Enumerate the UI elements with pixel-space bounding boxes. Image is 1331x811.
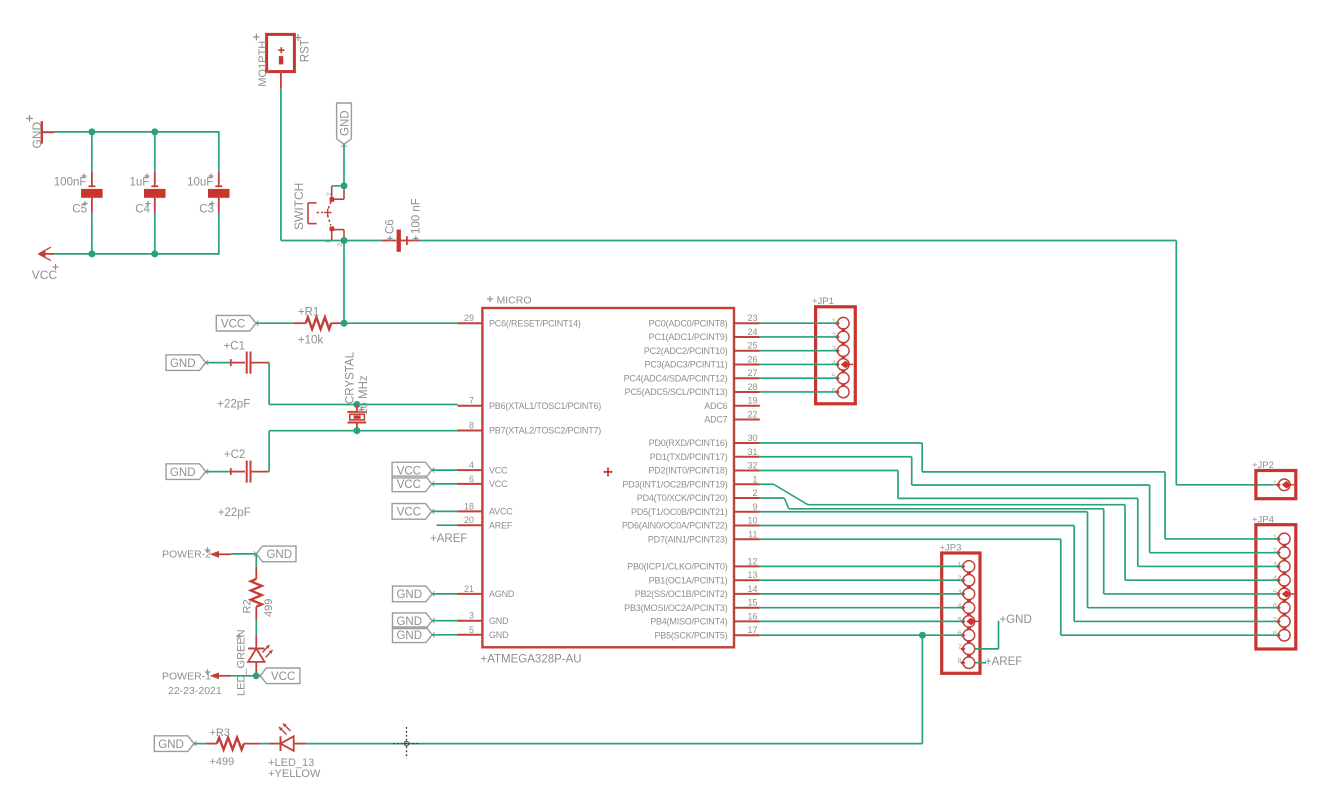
wire GND to C1 xyxy=(206,362,230,364)
node junction VCC/C4 xyxy=(151,250,158,257)
pin 9 PD5(T1/OC0B/PCINT21) (right) xyxy=(734,511,760,513)
pin 10 PD6(AIN0/OC0A/PCINT22) (right) xyxy=(734,525,760,527)
wire PB2 to JP3-3 xyxy=(760,593,963,595)
svg-text:MQ1PTH: MQ1PTH xyxy=(257,41,269,87)
svg-text:PC3(ADC3/PCINT11): PC3(ADC3/PCINT11) xyxy=(645,360,728,370)
supply tag GND (above switch, rotated) xyxy=(337,103,352,144)
supply tag VCC (power led) xyxy=(260,668,300,684)
svg-text:1uF: 1uF xyxy=(129,177,149,189)
svg-text:C6: C6 xyxy=(384,219,396,234)
wire JP3-7 to GND label xyxy=(975,648,999,650)
svg-text:PB0(ICP1/CLKO/PCINT0): PB0(ICP1/CLKO/PCINT0) xyxy=(627,562,728,572)
wire reset net to C6 xyxy=(382,240,397,242)
node junction GND/C4 xyxy=(151,128,158,135)
svg-text:25: 25 xyxy=(747,341,757,351)
wire RST vertical xyxy=(280,89,282,241)
wire GND bus top of cap bank xyxy=(54,131,218,133)
wire pin23 to JP1-1 xyxy=(760,322,838,324)
pin 7 PB6(XTAL1/TOSC1/PCINT6) (left) xyxy=(458,405,483,407)
svg-text:29: 29 xyxy=(464,313,474,323)
svg-text:23: 23 xyxy=(747,313,757,323)
connector JP4 xyxy=(1256,525,1296,649)
pin 22 ADC7 (right) xyxy=(734,418,760,420)
supply symbol GND (rotated) top-left xyxy=(41,121,43,144)
svg-text:6: 6 xyxy=(832,387,836,394)
svg-text:3: 3 xyxy=(469,611,474,621)
svg-text:19: 19 xyxy=(747,396,757,406)
svg-text:2: 2 xyxy=(326,192,333,196)
svg-text:8: 8 xyxy=(957,658,961,665)
svg-text:4: 4 xyxy=(1273,576,1277,583)
supply symbol VCC (rotated arrow) bottom-left xyxy=(41,253,54,255)
svg-text:8: 8 xyxy=(469,421,474,431)
svg-text:+AREF: +AREF xyxy=(430,533,467,545)
wire reset net long horizontal to JP2 xyxy=(420,240,1177,242)
svg-text:7: 7 xyxy=(469,396,474,406)
svg-text:2: 2 xyxy=(957,576,961,583)
wire GND tag to switch xyxy=(343,144,345,186)
supply tag GND (C2) xyxy=(166,464,206,480)
node junction GND/C5 xyxy=(88,128,95,135)
svg-text:5: 5 xyxy=(1273,589,1277,596)
wire C1 to XTAL1 xyxy=(251,362,270,364)
capacitor C5 100nF xyxy=(88,185,95,187)
svg-text:LED_GREEN: LED_GREEN xyxy=(235,629,247,696)
svg-text:GND: GND xyxy=(158,739,184,751)
svg-text:AREF: AREF xyxy=(489,520,513,530)
wire pin28 to JP1-6 xyxy=(760,391,838,393)
pin 2 PD4(T0/XCK/PCINT20) (right) xyxy=(734,497,760,499)
wire R1 to pin29 xyxy=(344,322,458,324)
supply tag GND (LED13) xyxy=(154,736,194,752)
svg-text:+AREF: +AREF xyxy=(985,656,1022,668)
node junction switch/reset-net xyxy=(341,237,348,244)
svg-text:1: 1 xyxy=(752,474,757,484)
wire pin24 to JP1-2 xyxy=(760,336,838,338)
svg-text:GND: GND xyxy=(396,630,422,642)
svg-text:+R3: +R3 xyxy=(210,727,231,739)
supply tag GND (pin3) xyxy=(393,613,433,629)
pin 19 ADC6 (right) xyxy=(734,405,760,407)
svg-text:6: 6 xyxy=(1273,603,1277,610)
svg-text:15: 15 xyxy=(747,598,757,608)
svg-text:14: 14 xyxy=(747,584,757,594)
wire PD7 to JP4-8 xyxy=(760,538,1061,540)
resistor R2 499 xyxy=(251,579,262,607)
svg-text:21: 21 xyxy=(464,584,474,594)
wire C4 lower lead xyxy=(154,198,156,213)
pin 11 PD7(AIN1/PCINT23) (right) xyxy=(734,538,760,540)
svg-text:7: 7 xyxy=(1273,617,1277,624)
svg-text:POWER-2: POWER-2 xyxy=(162,549,211,561)
wire C5 upper lead xyxy=(91,132,93,172)
capacitor C6 100nF xyxy=(397,230,401,252)
connector JP3 xyxy=(942,553,980,673)
capacitor C3 10uF xyxy=(215,185,222,187)
resistor R1 10k xyxy=(306,317,331,329)
svg-text:17: 17 xyxy=(747,625,757,635)
svg-text:7: 7 xyxy=(957,644,961,651)
svg-text:AVCC: AVCC xyxy=(489,507,513,517)
svg-text:PD6(AIN0/OC0A/PCINT22): PD6(AIN0/OC0A/PCINT22) xyxy=(622,521,728,531)
wire switch to R1 node xyxy=(343,241,345,324)
pin 29 PC6(/RESET/PCINT14) (left) xyxy=(458,322,483,324)
wire C5 lower lead xyxy=(91,198,93,213)
connector JP1 xyxy=(816,307,856,404)
svg-text:RST: RST xyxy=(299,39,311,62)
svg-text:GND: GND xyxy=(30,122,44,149)
pin 18 AVCC (left) xyxy=(458,510,483,512)
svg-text:PD0(RXD/PCINT16): PD0(RXD/PCINT16) xyxy=(649,438,728,448)
svg-text:PB1(OC1A/PCINT1): PB1(OC1A/PCINT1) xyxy=(649,575,728,585)
pin 20 AREF (left) xyxy=(458,524,483,526)
svg-text:VCC: VCC xyxy=(397,479,421,491)
wire PD5 to JP4-6 xyxy=(760,511,1088,513)
pin 24 PC1(ADC1/PCINT9) (right) xyxy=(734,336,760,338)
svg-text:10: 10 xyxy=(747,516,757,526)
svg-text:GND: GND xyxy=(396,616,422,628)
wire C3 upper lead xyxy=(218,131,220,172)
svg-text:+10k: +10k xyxy=(298,335,324,347)
svg-text:9: 9 xyxy=(752,502,757,512)
svg-text:+R1: +R1 xyxy=(298,307,319,319)
svg-text:+C2: +C2 xyxy=(224,449,245,461)
wire GND to R2 xyxy=(255,554,257,567)
svg-text:PB6(XTAL1/TOSC1/PCINT6): PB6(XTAL1/TOSC1/PCINT6) xyxy=(489,401,601,411)
svg-text:+GND: +GND xyxy=(1000,614,1032,626)
wire R2 to LED_GREEN xyxy=(255,620,257,636)
svg-text:GND: GND xyxy=(170,358,196,370)
wire pin26 to JP1-4 xyxy=(760,363,838,365)
svg-text:PC1(ADC1/PCINT9): PC1(ADC1/PCINT9) xyxy=(649,332,728,342)
cursor crosshair marker xyxy=(406,727,408,759)
pin 8 PB7(XTAL2/TOSC2/PCINT7) (left) xyxy=(458,430,483,432)
pin 30 PD0(RXD/PCINT16) (right) xyxy=(734,442,760,444)
svg-text:PC2(ADC2/PCINT10): PC2(ADC2/PCINT10) xyxy=(644,346,728,356)
svg-text:4: 4 xyxy=(957,603,961,610)
pin 21 AGND (left) xyxy=(458,593,483,595)
svg-text:18: 18 xyxy=(464,501,474,511)
wire PD0 to JP4-1 xyxy=(760,442,922,444)
svg-text:GND: GND xyxy=(489,630,509,640)
supply tag GND (power led) xyxy=(256,546,296,562)
wire PB3 to JP3-4 xyxy=(760,607,963,609)
wire JP3-8 to AREF label xyxy=(975,662,986,664)
svg-text:GND: GND xyxy=(489,616,509,626)
supply tag VCC (pin6) xyxy=(392,476,432,492)
svg-text:PB4(MISO/PCINT4): PB4(MISO/PCINT4) xyxy=(650,617,728,627)
wire PD3 to JP4-4 xyxy=(760,483,774,485)
svg-text:+YELLOW: +YELLOW xyxy=(268,768,321,780)
supply tag GND (pin5) xyxy=(393,627,433,643)
wire C2 to XTAL2 xyxy=(251,471,270,473)
svg-text:12: 12 xyxy=(747,556,757,566)
svg-text:11: 11 xyxy=(748,529,757,539)
wire LED13 to PB5 net xyxy=(306,743,922,745)
pin 1 PD3(INT1/OC2B/PCINT19) (right) xyxy=(734,483,760,485)
svg-text:+JP3: +JP3 xyxy=(940,543,962,554)
svg-text:VCC: VCC xyxy=(489,479,508,489)
node junction PB5 net xyxy=(919,632,926,639)
pin 14 PB2(SS/OC1B/PCINT2) (right) xyxy=(734,593,760,595)
pin 4 VCC (left) xyxy=(458,469,483,471)
svg-text:PD1(TXD/PCINT17): PD1(TXD/PCINT17) xyxy=(650,452,728,462)
pin 12 PB0(ICP1/CLKO/PCINT0) (right) xyxy=(734,565,760,567)
svg-text:PC0(ADC0/PCINT8): PC0(ADC0/PCINT8) xyxy=(649,318,728,328)
svg-text:SWITCH: SWITCH xyxy=(292,183,306,230)
svg-text:PD4(T0/XCK/PCINT20): PD4(T0/XCK/PCINT20) xyxy=(637,493,728,503)
pin 31 PD1(TXD/PCINT17) (right) xyxy=(734,456,760,458)
node junction R1/reset xyxy=(341,320,348,327)
svg-text:VCC: VCC xyxy=(32,268,58,282)
wire PD2 to JP4-3 xyxy=(760,470,898,472)
svg-text:32: 32 xyxy=(747,461,757,471)
svg-text:+22pF: +22pF xyxy=(217,399,250,411)
svg-text:PD7(AIN1/PCINT23): PD7(AIN1/PCINT23) xyxy=(648,534,728,544)
svg-text:24: 24 xyxy=(747,327,757,337)
svg-text:VCC: VCC xyxy=(489,465,508,475)
wire VCC to R1 xyxy=(256,322,293,324)
svg-text:MICRO: MICRO xyxy=(497,295,532,307)
LED LED_13 YELLOW xyxy=(280,736,282,751)
wire PB4 to JP3-5 xyxy=(760,620,963,622)
svg-text:1: 1 xyxy=(832,319,836,326)
wire pin25 to JP1-3 xyxy=(760,350,838,352)
svg-text:CRYSTAL: CRYSTAL xyxy=(344,351,356,404)
wire PB5 to JP3-6 xyxy=(760,634,963,636)
svg-text:POWER-1: POWER-1 xyxy=(162,671,211,683)
svg-text:5: 5 xyxy=(832,374,836,381)
svg-text:+499: +499 xyxy=(210,756,235,768)
capacitor C1 22pF xyxy=(246,352,248,374)
svg-text:13: 13 xyxy=(747,570,757,580)
svg-text:2: 2 xyxy=(752,488,757,498)
svg-text:VCC: VCC xyxy=(271,671,295,683)
wire PD1 to JP4-2 xyxy=(760,456,912,458)
svg-text:5: 5 xyxy=(957,617,961,624)
pin 6 VCC (left) xyxy=(458,483,483,485)
svg-text:5: 5 xyxy=(469,625,474,635)
svg-text:GND: GND xyxy=(170,467,196,479)
svg-text:30: 30 xyxy=(747,433,757,443)
wire reset net horizontal xyxy=(281,240,382,242)
svg-text:1: 1 xyxy=(957,562,961,569)
pad MQ1PTH RST xyxy=(267,34,295,71)
wire RST pad stem xyxy=(280,71,282,89)
svg-text:+22pF: +22pF xyxy=(218,507,251,519)
svg-text:GND: GND xyxy=(266,549,292,561)
svg-text:100nF: 100nF xyxy=(54,177,87,189)
svg-text:3: 3 xyxy=(957,589,961,596)
pin 23 PC0(ADC0/PCINT8) (right) xyxy=(734,322,760,324)
svg-text:22-23-2021: 22-23-2021 xyxy=(168,685,222,697)
wire AREF pin20 xyxy=(437,524,458,526)
node junction LED/VCC/POWER-1 xyxy=(253,672,260,679)
pin 17 PB5(SCK/PCINT5) (right) xyxy=(734,634,760,636)
svg-text:VCC: VCC xyxy=(221,318,245,330)
resistor R3 499 xyxy=(217,738,244,750)
svg-text:20: 20 xyxy=(464,515,474,525)
capacitor C4 1uF xyxy=(151,185,158,187)
svg-text:PC6(/RESET/PCINT14): PC6(/RESET/PCINT14) xyxy=(489,318,581,328)
svg-text:PD2(INT0/PCINT18): PD2(INT0/PCINT18) xyxy=(648,466,727,476)
LED LED_GREEN xyxy=(248,648,264,650)
wire C3 lower lead xyxy=(218,198,220,213)
wire PD6 to JP4-7 xyxy=(760,525,1074,527)
svg-text:+C1: +C1 xyxy=(224,341,245,353)
svg-text:4: 4 xyxy=(469,460,474,470)
pin 16 PB4(MISO/PCINT4) (right) xyxy=(734,620,760,622)
pin 13 PB1(OC1A/PCINT1) (right) xyxy=(734,579,760,581)
svg-text:PB5(SCK/PCINT5): PB5(SCK/PCINT5) xyxy=(654,630,727,640)
wire POWER-2 to GND tag xyxy=(231,553,256,555)
svg-text:PB7(XTAL2/TOSC2/PCINT7): PB7(XTAL2/TOSC2/PCINT7) xyxy=(489,426,601,436)
wire PD4 to JP4-5 xyxy=(760,497,785,499)
wire VCC bus bottom of cap bank xyxy=(54,253,218,255)
switch S1 (reset pushbutton, rotated) xyxy=(341,182,348,189)
pin 32 PD2(INT0/PCINT18) (right) xyxy=(734,470,760,472)
pin 25 PC2(ADC2/PCINT10) (right) xyxy=(734,350,760,352)
supply tag VCC (R1) xyxy=(216,315,256,331)
svg-text:8: 8 xyxy=(1273,631,1277,638)
supply tag VCC (pin4) xyxy=(392,462,432,478)
svg-text:+JP1: +JP1 xyxy=(812,296,834,307)
svg-text:31: 31 xyxy=(747,447,757,457)
pin 27 PC4(ADC4/SDA/PCINT12) (right) xyxy=(734,377,760,379)
svg-text:499: 499 xyxy=(263,599,275,617)
svg-text:6: 6 xyxy=(957,631,961,638)
wire GND to C2 xyxy=(206,471,230,473)
svg-text:1: 1 xyxy=(1273,534,1277,541)
svg-text:4: 4 xyxy=(832,360,836,367)
crystal Q1 16MHz xyxy=(353,401,360,408)
wire PB1 to JP3-2 xyxy=(760,579,963,581)
pin 3 GND (left) xyxy=(458,620,483,622)
wire PB0 to JP3-1 xyxy=(760,565,963,567)
svg-text:+JP4: +JP4 xyxy=(1252,515,1274,526)
svg-text:PD3(INT1/OC2B/PCINT19): PD3(INT1/OC2B/PCINT19) xyxy=(622,479,727,489)
wire C4 upper lead xyxy=(154,132,156,172)
supply tag GND (C1) xyxy=(166,355,206,371)
svg-text:3: 3 xyxy=(832,346,836,353)
svg-text:6: 6 xyxy=(469,474,474,484)
supply tag GND (AGND pin21) xyxy=(393,586,433,602)
svg-text:3: 3 xyxy=(1273,562,1277,569)
node junction VCC/C5 xyxy=(88,250,95,257)
connector JP2 xyxy=(1256,471,1296,499)
wire pin27 to JP1-5 xyxy=(760,377,838,379)
svg-text:GND: GND xyxy=(396,589,422,601)
svg-text:ADC6: ADC6 xyxy=(704,401,727,411)
pin 5 GND (left) xyxy=(458,634,483,636)
svg-text:26: 26 xyxy=(747,354,757,364)
capacitor C2 22pF xyxy=(246,461,248,483)
wire R3 to LED13 xyxy=(261,743,269,745)
svg-text:GND: GND xyxy=(339,110,351,136)
svg-text:R2: R2 xyxy=(241,599,253,613)
svg-text:+JP2: +JP2 xyxy=(1252,460,1274,471)
svg-text:28: 28 xyxy=(747,382,757,392)
svg-text:PD5(T1/OC0B/PCINT21): PD5(T1/OC0B/PCINT21) xyxy=(631,507,728,517)
op-amp U1 MICRO ATMEGA328P-AU ic body xyxy=(482,308,734,647)
svg-text:100 nF: 100 nF xyxy=(410,198,422,234)
svg-text:1: 1 xyxy=(1273,480,1277,487)
svg-text:AGND: AGND xyxy=(489,589,515,599)
wire GND to R3 xyxy=(194,743,207,745)
svg-text:10uF: 10uF xyxy=(187,177,213,189)
svg-text:VCC: VCC xyxy=(397,507,421,519)
svg-text:PC4(ADC4/SDA/PCINT12): PC4(ADC4/SDA/PCINT12) xyxy=(624,373,728,383)
svg-text:2: 2 xyxy=(832,332,836,339)
svg-text:+ATMEGA328P-AU: +ATMEGA328P-AU xyxy=(481,654,582,666)
pin 28 PC5(ADC5/SCL/PCINT13) (right) xyxy=(734,391,760,393)
svg-text:2: 2 xyxy=(1273,548,1277,555)
svg-text:PC5(ADC5/SCL/PCINT13): PC5(ADC5/SCL/PCINT13) xyxy=(625,387,728,397)
svg-text:PB3(MOSI/OC2A/PCINT3): PB3(MOSI/OC2A/PCINT3) xyxy=(624,603,728,613)
svg-text:ADC7: ADC7 xyxy=(704,415,727,425)
pin 15 PB3(MOSI/OC2A/PCINT3) (right) xyxy=(734,607,760,609)
svg-text:27: 27 xyxy=(747,368,757,378)
svg-text:22: 22 xyxy=(747,409,757,419)
svg-text:16: 16 xyxy=(747,611,757,621)
wire PB5 down to LED13 row xyxy=(921,635,923,743)
red origin cross U1 xyxy=(604,471,613,473)
pin 26 PC3(ADC3/PCINT11) (right) xyxy=(734,363,760,365)
svg-text:PB2(SS/OC1B/PCINT2): PB2(SS/OC1B/PCINT2) xyxy=(635,589,728,599)
supply tag VCC (AVCC pin18) xyxy=(392,504,432,520)
